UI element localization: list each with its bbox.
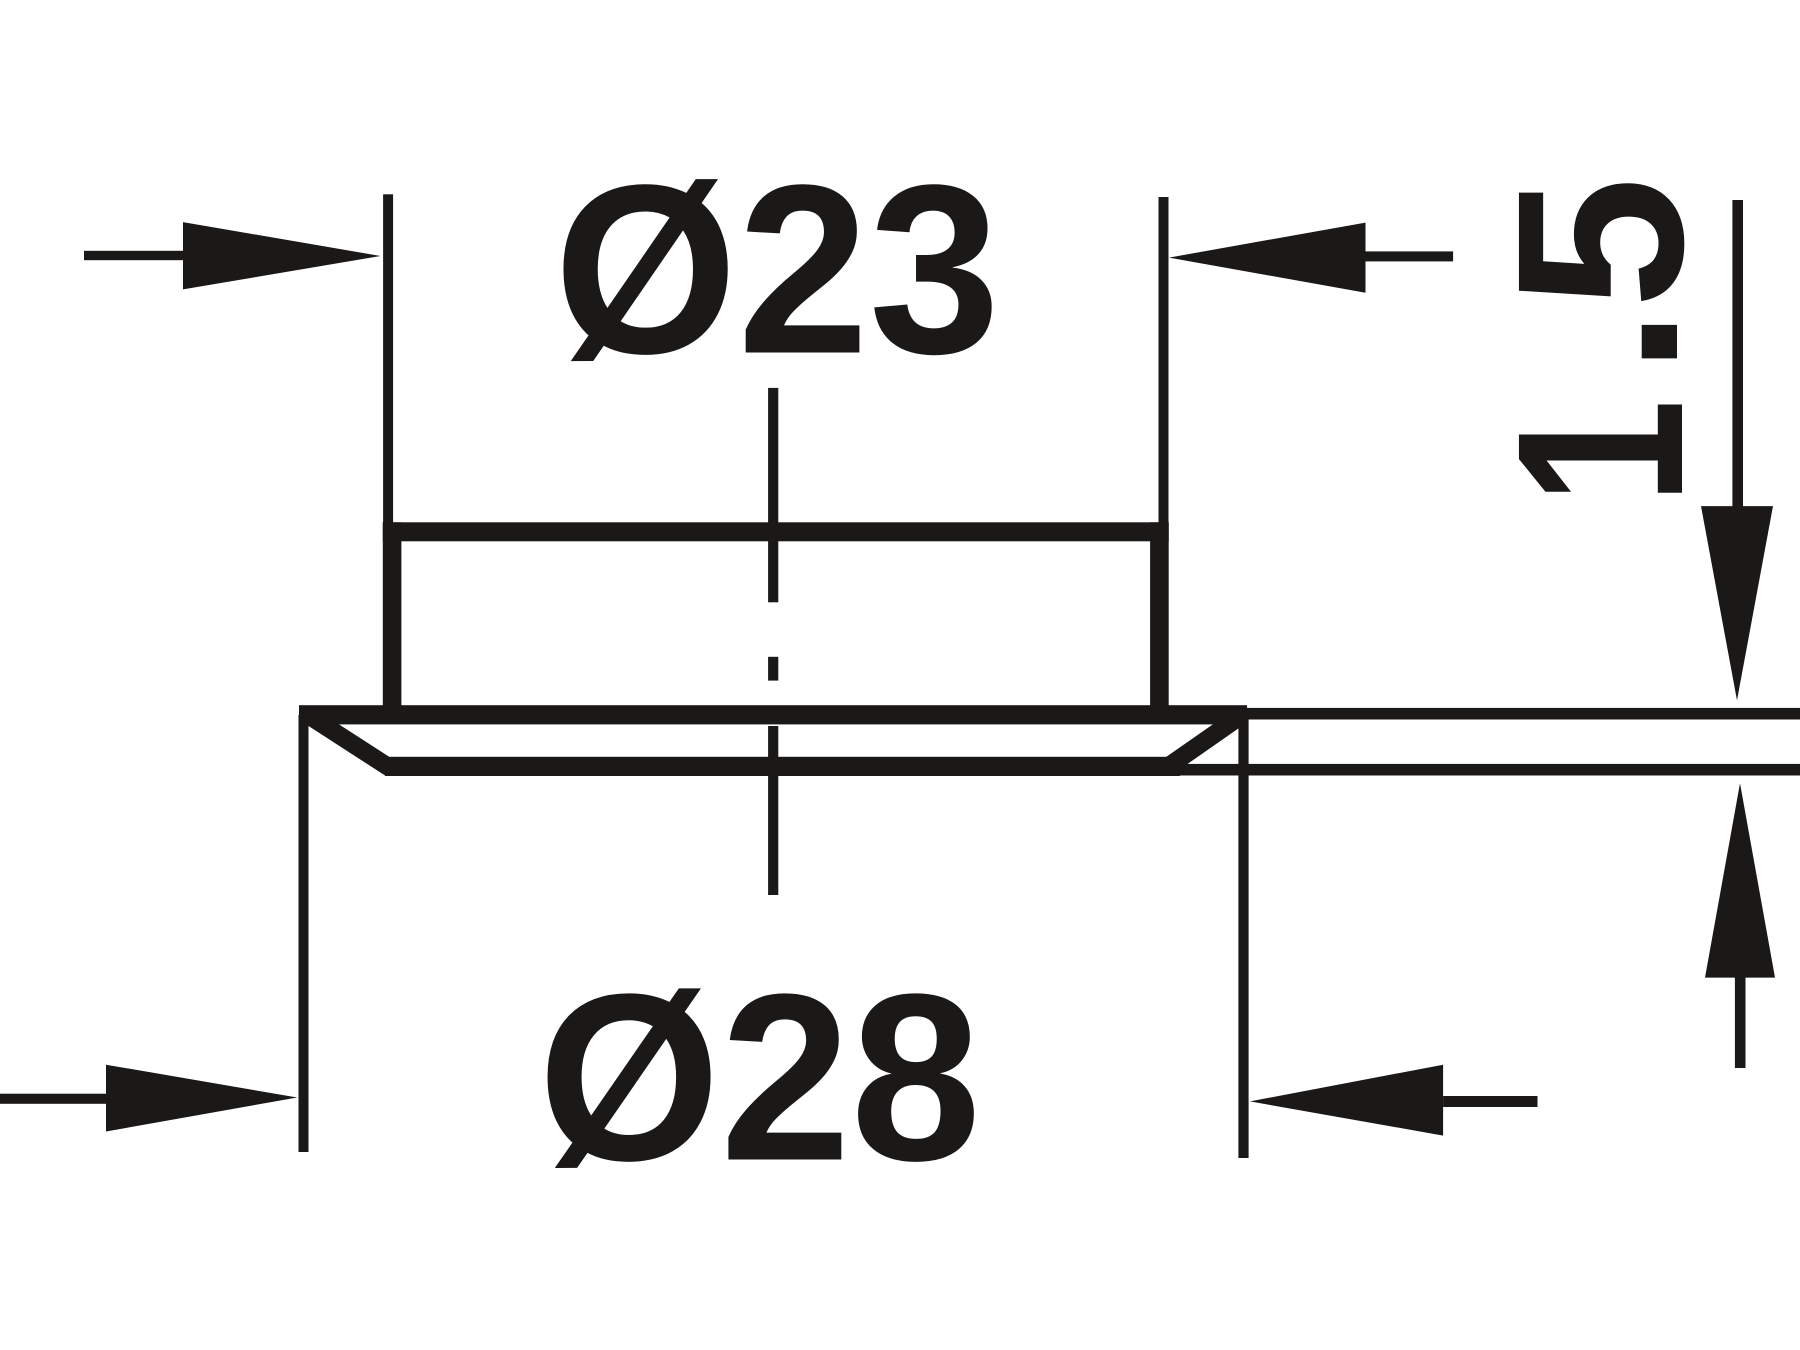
- flange bottom line: [385, 757, 1180, 776]
- panel surface line bottom: [1180, 764, 1800, 776]
- extension line Ø23 right: [1159, 197, 1169, 530]
- dimension arrow Ø28 left: [0, 1065, 297, 1132]
- svg-text:Ø23: Ø23: [554, 134, 1000, 404]
- dimension 1.5 upper arrowhead (down): [1701, 506, 1773, 700]
- panel surface line top: [1247, 708, 1800, 720]
- flange right chamfer: [1166, 715, 1242, 768]
- centerline dash lower: [768, 726, 778, 895]
- dimension 1.5 lower arrowhead (up): [1705, 783, 1775, 977]
- svg-text:5: 5: [1468, 177, 1733, 309]
- body outline right edge: [1150, 522, 1169, 714]
- extension line Ø28 left: [299, 715, 309, 1152]
- dimension arrow Ø28 right: [1250, 1065, 1538, 1136]
- dimension arrow Ø23 right: [1169, 223, 1453, 293]
- centerline dot: [768, 657, 778, 681]
- value label 1.5 (rotated): [1463, 177, 1733, 505]
- dimension 1.5 upper arrow stem: [1732, 200, 1743, 508]
- svg-text:.: .: [1463, 309, 1728, 375]
- extension line Ø28 right: [1238, 715, 1248, 1158]
- flange left chamfer: [308, 715, 390, 768]
- flange top line: [299, 705, 1247, 724]
- body outline top: [383, 522, 1169, 541]
- dimension arrow Ø23 left: [84, 222, 381, 289]
- body outline left edge: [383, 522, 402, 714]
- centerline dash upper: [768, 388, 778, 602]
- svg-text:1: 1: [1469, 399, 1733, 504]
- extension line Ø23 left: [383, 194, 393, 530]
- svg-text:Ø28: Ø28: [538, 945, 981, 1211]
- dimension 1.5 lower arrow stem: [1735, 976, 1746, 1068]
